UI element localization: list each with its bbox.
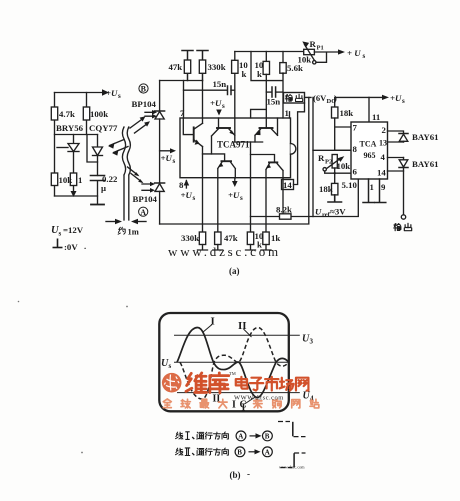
svg-text:P1: P1 [317, 45, 324, 52]
svg-text:10k: 10k [337, 161, 351, 171]
svg-text::0V: :0V [64, 242, 78, 252]
svg-text:CQY77: CQY77 [89, 123, 118, 133]
svg-text:47k: 47k [224, 233, 238, 243]
svg-text:1k: 1k [271, 233, 280, 243]
svg-text:100k: 100k [90, 109, 108, 119]
svg-text:18k: 18k [340, 108, 354, 118]
svg-text:k: k [242, 69, 247, 79]
svg-text:8.2k: 8.2k [276, 205, 292, 215]
svg-text:s: s [193, 194, 196, 202]
svg-text:s: s [118, 92, 121, 100]
svg-text:s: s [169, 362, 172, 370]
svg-text:k: k [257, 69, 262, 79]
svg-text:5.10: 5.10 [342, 180, 358, 190]
svg-text:-: - [247, 469, 250, 479]
svg-text:+U: +U [390, 93, 402, 103]
svg-text:1: 1 [370, 182, 374, 192]
svg-text:TCA: TCA [360, 140, 377, 149]
svg-text:13: 13 [379, 139, 387, 148]
svg-text:TM: TM [229, 371, 236, 376]
svg-text:s: s [59, 230, 62, 238]
svg-text:A: A [238, 433, 243, 441]
svg-text:s: s [402, 97, 405, 105]
svg-text:P2: P2 [325, 159, 332, 166]
svg-text:8: 8 [179, 180, 184, 190]
svg-text:7: 7 [353, 123, 358, 133]
svg-text:s: s [363, 52, 366, 60]
svg-text:+U: +U [161, 153, 173, 163]
svg-text:3: 3 [310, 338, 314, 346]
svg-text:9: 9 [381, 182, 386, 192]
svg-text:μ: μ [101, 183, 106, 193]
svg-text:1: 1 [285, 108, 289, 118]
svg-text:≈3V: ≈3V [330, 207, 346, 217]
svg-text:+ U: + U [347, 48, 361, 58]
svg-text:330k: 330k [208, 62, 226, 72]
svg-text:+U: +U [228, 190, 240, 200]
svg-text:(6V: (6V [313, 93, 327, 103]
svg-text:(a): (a) [229, 266, 240, 276]
svg-text:): ) [334, 93, 337, 103]
svg-text:I: I [211, 316, 215, 328]
svg-text:6: 6 [353, 167, 358, 177]
svg-text:II: II [238, 320, 247, 332]
svg-text:18k: 18k [319, 184, 333, 194]
svg-text:+U: +U [181, 190, 193, 200]
svg-text:1m: 1m [128, 227, 139, 237]
svg-text:www.dzsc.com: www.dzsc.com [168, 244, 281, 259]
svg-text:330k: 330k [181, 233, 199, 243]
svg-text:A: A [140, 208, 146, 217]
svg-text:2: 2 [382, 125, 387, 135]
svg-text:.: . [84, 241, 86, 251]
svg-text:R: R [318, 153, 325, 163]
svg-text:(b): (b) [230, 470, 241, 480]
svg-text:BP104: BP104 [132, 99, 157, 109]
svg-text:4.7k: 4.7k [59, 109, 75, 119]
svg-text:BRY56: BRY56 [56, 123, 84, 133]
svg-text:4: 4 [381, 152, 386, 162]
svg-text:B: B [141, 85, 147, 94]
svg-text:10k: 10k [298, 55, 312, 65]
svg-text:47k: 47k [169, 62, 183, 72]
svg-text:8: 8 [353, 144, 358, 154]
svg-text:14: 14 [377, 168, 386, 178]
svg-text:B: B [265, 433, 270, 441]
svg-text:10k: 10k [59, 175, 73, 185]
svg-text:=12V: =12V [63, 225, 84, 235]
svg-text:TCA971: TCA971 [217, 139, 250, 149]
svg-text:15n: 15n [267, 97, 281, 107]
svg-text:U: U [315, 207, 322, 217]
svg-text:BAY61: BAY61 [412, 132, 439, 142]
svg-text:965: 965 [364, 151, 376, 160]
svg-text:+U: +U [210, 98, 222, 108]
svg-text:14: 14 [283, 180, 292, 190]
svg-text:11: 11 [372, 112, 380, 122]
svg-text:BAY61: BAY61 [412, 159, 439, 169]
svg-text:1: 1 [78, 175, 82, 185]
svg-text:5.6k: 5.6k [287, 63, 303, 73]
svg-text:R: R [310, 39, 317, 49]
svg-text:7: 7 [180, 108, 185, 118]
svg-text:s: s [222, 102, 225, 110]
svg-text:A: A [265, 449, 270, 457]
svg-text:s: s [240, 194, 243, 202]
svg-text:15n: 15n [213, 79, 227, 89]
svg-text:+U: +U [106, 88, 118, 98]
svg-text:s: s [173, 157, 176, 165]
svg-text:B: B [237, 449, 242, 457]
svg-text:WWW.dzsc.com: WWW.dzsc.com [234, 395, 284, 402]
svg-text:BP104: BP104 [133, 194, 158, 204]
